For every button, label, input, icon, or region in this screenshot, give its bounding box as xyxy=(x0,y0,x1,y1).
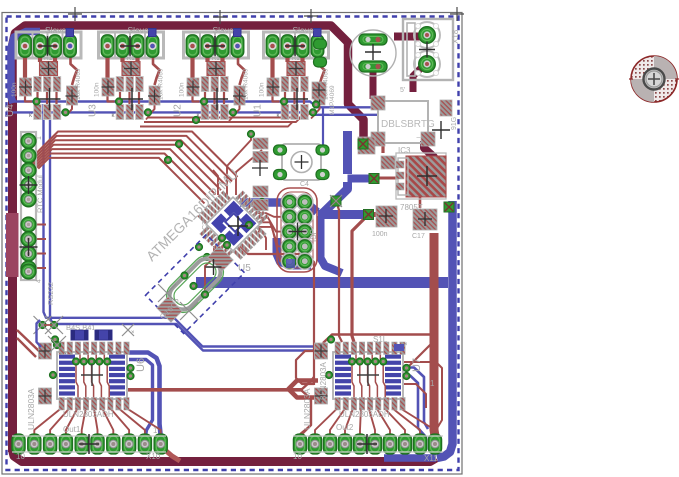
via U1 a xyxy=(281,98,288,105)
wire red X11 pad1 link xyxy=(300,425,311,434)
diode M8 B41 b xyxy=(95,330,112,340)
svg-text:U6: U6 xyxy=(135,358,147,372)
wire red pad stubs U2 xyxy=(190,52,194,79)
IC U4 smd xyxy=(66,29,74,37)
svg-text:X18: X18 xyxy=(451,29,460,44)
resistor R1 U3 xyxy=(122,62,140,76)
svg-text:10: 10 xyxy=(16,452,25,461)
connector U2 terminal block xyxy=(184,32,249,58)
big cross U1 xyxy=(286,88,308,110)
svg-text:B4S B41: B4S B41 xyxy=(66,323,96,332)
via U1 b xyxy=(310,109,317,116)
IC3 regulator tab xyxy=(396,153,446,199)
connector U1 terminal block xyxy=(264,32,329,58)
wire GND blue big horizontal xyxy=(196,277,448,288)
svg-text:RS232: RS232 xyxy=(46,282,55,305)
wire red fan U7 to X11 xyxy=(315,409,337,437)
resistor group mid d xyxy=(253,200,268,211)
IC U7 pins top xyxy=(335,342,340,355)
cross RTC a xyxy=(20,176,38,194)
IC U7 internal traces xyxy=(352,364,354,398)
svg-text:Out1: Out1 xyxy=(63,425,81,434)
svg-text:100n: 100n xyxy=(372,231,388,238)
svg-text:U2: U2 xyxy=(173,104,184,117)
capacitor 100n U4 xyxy=(20,78,32,96)
vias U5 inner xyxy=(246,222,253,229)
wire red U5 bottom to crystal xyxy=(205,246,214,291)
big cross U2 xyxy=(206,88,228,110)
svg-text:×: × xyxy=(131,330,135,336)
resistor group mid a xyxy=(253,138,268,149)
board outline frame xyxy=(2,13,462,475)
svg-text:10k R4069: 10k R4069 xyxy=(75,68,82,100)
via square d xyxy=(364,210,374,220)
resistor R1 U4 xyxy=(40,62,58,76)
via U5 area d xyxy=(248,131,255,138)
pad mid hatched a xyxy=(358,137,375,154)
resistor array U1 row2 xyxy=(281,105,289,120)
svg-text:5': 5' xyxy=(400,87,405,94)
svg-text:DBLSBRTG: DBLSBRTG xyxy=(381,119,435,130)
header SV1 pads xyxy=(282,194,298,210)
IC U7 copper bars left xyxy=(335,355,351,359)
pads BAS vias xyxy=(39,322,46,329)
pads U1 xyxy=(266,35,279,57)
connector X11 silk xyxy=(293,436,443,452)
svg-text:U4: U4 xyxy=(5,104,16,117)
connector X11 cross xyxy=(357,434,377,454)
svg-text:Out2: Out2 xyxy=(336,423,354,432)
capacitor C15 cross xyxy=(365,44,381,60)
IC U7 body xyxy=(333,352,403,399)
capacitor U6 left bottom xyxy=(39,388,52,404)
big cross U3 xyxy=(121,88,143,110)
switch S1 body xyxy=(282,144,321,180)
IC U6 pins top xyxy=(59,342,64,355)
wire red long horizontal U6-U7 xyxy=(128,388,303,392)
IC U6 pins bottom xyxy=(59,398,64,411)
crystal Q1 vias xyxy=(181,272,188,279)
wire blue bottom edge xyxy=(384,454,436,462)
capacitor 100n U2 xyxy=(187,78,199,96)
svg-text:ULN2803A: ULN2803A xyxy=(26,388,36,430)
wire blue drop to U6 xyxy=(37,320,42,347)
svg-text:U7: U7 xyxy=(411,358,423,372)
svg-text:8LN2803A: 8LN2803A xyxy=(319,362,328,400)
cross U5 xyxy=(228,216,248,236)
capacitor U7 left top xyxy=(315,343,328,359)
connector X10 pads xyxy=(12,434,25,454)
wire red mid vertical x349 xyxy=(352,215,368,342)
resistor array U1 row1 xyxy=(281,77,289,92)
wire red U7 ring xyxy=(289,381,319,398)
wire red power vertical right xyxy=(434,233,435,436)
wire red via2 hooks xyxy=(146,115,150,120)
capacitor 100n U3 xyxy=(102,78,114,96)
svg-text:100n: 100n xyxy=(179,82,186,97)
IC U7 via row xyxy=(349,358,356,365)
vias U6 sides xyxy=(52,336,59,343)
wire red via link xyxy=(44,324,52,326)
capacitor U6 left top xyxy=(39,343,52,359)
IC U5 ATMEGA body (rotated 45) xyxy=(206,197,260,251)
svg-text:ISP: ISP xyxy=(309,229,318,242)
wire red U6 corner to GND xyxy=(158,444,180,461)
IC3 cross xyxy=(417,166,437,186)
wire red band to U7 horizontal xyxy=(323,335,430,344)
wire red X18 pin2 down xyxy=(413,66,423,92)
svg-text:Slave: Slave xyxy=(128,25,150,35)
wire +V blue top-left corner xyxy=(11,32,40,104)
IC U6 internal traces xyxy=(76,364,78,398)
connector U3 terminal block xyxy=(99,32,164,58)
wire +5V blue diagonal to ISP xyxy=(321,182,348,215)
capacitor C16 xyxy=(376,206,397,227)
wire blue ISP right vertical xyxy=(321,216,343,273)
connector X11 pads xyxy=(293,434,306,454)
rectifier DBLC outline xyxy=(378,101,428,143)
rectifier DBLC pads xyxy=(371,96,385,110)
wire GND ring top (thick dark red) xyxy=(13,26,364,142)
diode M8 B41 a xyxy=(71,330,88,340)
crystal Q1 body xyxy=(153,242,238,327)
wire red fan U6 to X10 xyxy=(34,408,61,437)
wire red cap to DBLC xyxy=(370,71,377,99)
svg-text:91G: 91G xyxy=(451,117,458,130)
wire red IC3 to C17 xyxy=(419,196,422,208)
capacitor C15 pads xyxy=(359,34,387,45)
pad mid hatched b xyxy=(381,156,395,169)
resistor R1 U1 xyxy=(287,62,305,76)
origin cross top b xyxy=(213,10,227,24)
connector U4 terminal block xyxy=(16,32,81,58)
resistor array U4 row1 xyxy=(34,77,42,92)
svg-text:~: ~ xyxy=(381,105,386,114)
resistor group mid c xyxy=(253,186,268,197)
svg-text:M1P/4069: M1P/4069 xyxy=(329,85,336,115)
wire signal blue horizontal 2 (thin) xyxy=(12,112,377,114)
svg-text:1: 1 xyxy=(36,136,43,140)
board dimension border (dashed) xyxy=(7,17,459,471)
origin cross U3 xyxy=(120,36,140,56)
wire red U7 top entries xyxy=(296,351,316,384)
svg-text:X11: X11 xyxy=(424,454,438,463)
svg-text:4: 4 xyxy=(36,279,43,283)
wire blue right edge vertical xyxy=(437,201,453,458)
wire blue RTC vertical b xyxy=(50,114,316,351)
via square b xyxy=(369,174,379,184)
svg-text:100n: 100n xyxy=(259,82,266,97)
via U2 b xyxy=(230,109,237,116)
header SV1 blue pin1 mark xyxy=(286,259,295,268)
wire GND ring left (thick dark red) xyxy=(8,96,17,452)
svg-text:10k R4069: 10k R4069 xyxy=(158,68,165,100)
via U3 b xyxy=(145,109,152,116)
wire +5V blue mid vertical xyxy=(343,131,352,174)
IC U5 pins (rotated comb) xyxy=(190,181,276,267)
wire red pad stubs U1 xyxy=(270,52,274,79)
diode pads pair top xyxy=(314,39,327,49)
pads U4 xyxy=(19,35,32,57)
resistor U4 right xyxy=(67,86,78,105)
svg-text:10k R4069: 10k R4069 xyxy=(243,68,250,100)
wire red pad stubs U3 xyxy=(105,52,109,79)
svg-text:ULN2803ADH: ULN2803ADH xyxy=(339,410,390,419)
IC U6 body xyxy=(57,352,127,399)
pads RTC upper xyxy=(21,134,36,149)
wire +5V blue horizontal ISP top xyxy=(318,210,367,219)
resistor U1 right xyxy=(314,86,325,105)
IC3 pins xyxy=(396,161,404,168)
svg-text:RTC Modul: RTC Modul xyxy=(36,175,45,213)
via U5 area a xyxy=(193,117,200,124)
header SV1 outline red xyxy=(277,188,317,272)
origin cross U2 xyxy=(205,36,225,56)
xmark U6 top right xyxy=(122,324,134,336)
IC U7 cross xyxy=(357,364,379,386)
wire blue U6 wrap inner xyxy=(129,360,153,437)
resistor U2 right xyxy=(234,86,245,105)
wire red mid vertical x339 xyxy=(337,204,342,342)
wire red second-level horizontals xyxy=(148,113,310,118)
via U4 a xyxy=(33,98,40,105)
wire bus RTC to U5 (red bundle) xyxy=(28,132,238,178)
svg-text:U1: U1 xyxy=(253,104,264,117)
svg-text:Slave: Slave xyxy=(213,25,235,35)
wire blue RTC vertical a xyxy=(44,104,317,347)
svg-text:1: 1 xyxy=(430,379,435,388)
resistor right of group4 xyxy=(312,82,326,99)
wire red via to C16 xyxy=(370,212,388,217)
svg-text:Slave: Slave xyxy=(45,25,67,35)
pad RTC last xyxy=(21,264,36,279)
svg-text:U3: U3 xyxy=(88,104,99,117)
via square c xyxy=(331,196,341,206)
origin cross top d xyxy=(450,7,464,21)
wire blue stub to switch xyxy=(322,107,324,146)
connector X18 outline xyxy=(403,19,453,80)
rectifier DBLC cross xyxy=(432,121,450,139)
via U2 a xyxy=(201,98,208,105)
via U5 area b xyxy=(176,141,183,148)
wire red 7805 out xyxy=(376,177,398,180)
svg-text:ULN2803A: ULN2803A xyxy=(302,388,312,430)
IC U2 smd xyxy=(234,29,242,37)
origin cross U4 xyxy=(38,36,58,56)
via square a xyxy=(358,139,368,149)
crystal Q1 xmarks xyxy=(158,284,176,302)
svg-text:100n: 100n xyxy=(94,82,101,97)
wire +5V blue stub to via xyxy=(348,175,373,183)
wire GND ring bottom (thick dark red) xyxy=(13,450,437,462)
wire red DBLC to IC3 xyxy=(424,141,434,162)
resistor array U3 row1 xyxy=(116,77,124,92)
pads U3 xyxy=(101,35,114,57)
switch S1 pads xyxy=(274,145,287,155)
pads U2 xyxy=(186,35,199,57)
resistor array U2 row2 xyxy=(201,105,209,120)
connector X10 cross xyxy=(79,434,99,454)
IC U7 copper bars right xyxy=(385,355,401,359)
capacitor 100n U1 xyxy=(267,78,279,96)
wire red fork up xyxy=(301,377,314,390)
connector X18 pad2 xyxy=(414,51,440,77)
header SV1 cross xyxy=(289,223,307,241)
wire red U6 left diagonals xyxy=(17,330,40,352)
svg-text:C4: C4 xyxy=(300,181,309,188)
IC U3 smd xyxy=(149,29,157,37)
wire blue U5 to header xyxy=(240,203,317,213)
wire blue U6 wrap outer xyxy=(129,353,161,435)
connector X18 pad1 xyxy=(414,22,440,48)
via square e xyxy=(444,202,454,212)
mounting hole pad xyxy=(629,56,679,102)
connector RTC module silk xyxy=(21,132,36,280)
big cross U4 xyxy=(39,88,61,110)
wire blue ISP left vertical xyxy=(277,238,312,266)
origin cross top c xyxy=(304,9,318,23)
svg-text:C17: C17 xyxy=(412,233,425,240)
svg-text:1: 1 xyxy=(153,426,158,435)
wire red fork down xyxy=(301,390,311,438)
svg-text:10: 10 xyxy=(293,452,302,461)
pads RTC lower xyxy=(21,217,36,232)
wire blue U7 right b xyxy=(404,376,426,451)
cross RTC b xyxy=(20,238,38,256)
IC U6 copper bars right xyxy=(109,355,125,359)
capacitor U7 left bottom xyxy=(315,388,328,404)
svg-text:ULN2803ADH: ULN2803ADH xyxy=(63,410,114,419)
crystal Q1 cross xyxy=(206,259,222,275)
origin cross top a xyxy=(68,7,82,21)
connector X10 silk xyxy=(12,436,166,452)
resistor array U4 row2 xyxy=(34,105,42,120)
capacitor C17 xyxy=(413,209,437,230)
vias U7 sides xyxy=(328,336,335,343)
wire red U7 right hookups xyxy=(406,344,431,368)
switch S1 cross xyxy=(295,155,309,169)
connector X18 cross xyxy=(419,42,435,58)
wire bus U5 to ISP header (red) xyxy=(258,202,283,209)
svg-text:S1L: S1L xyxy=(373,335,388,344)
wire red U5 bottom across xyxy=(240,246,314,385)
svg-text:X10: X10 xyxy=(146,452,161,461)
wire red DBLC bottom left xyxy=(381,140,384,153)
origin cross U1 xyxy=(285,36,305,56)
svg-text:Slave: Slave xyxy=(293,25,315,35)
via U3 a xyxy=(116,98,123,105)
IC U6 copper bars left xyxy=(59,355,75,359)
resistor array U3 row2 xyxy=(116,105,124,120)
IC U1 smd xyxy=(314,29,322,37)
capacitor C15 outline xyxy=(350,30,396,76)
wire blue U7 right a xyxy=(404,368,428,430)
svg-text:×: × xyxy=(404,342,408,348)
red plane patch left edge xyxy=(6,213,19,277)
cross mid resistors xyxy=(252,160,268,176)
via U5 area c xyxy=(165,157,172,164)
wire signal blue horizontal 1 (thin) xyxy=(12,102,377,108)
svg-text:−: − xyxy=(416,133,421,142)
wire red X18 to cap xyxy=(394,33,420,41)
resistor group mid b xyxy=(253,152,268,163)
svg-text:C3: C3 xyxy=(202,221,209,230)
IC U6 cross xyxy=(81,364,103,386)
svg-text:100n: 100n xyxy=(11,82,18,97)
resistor R1 U2 xyxy=(207,62,225,76)
resistor U3 right xyxy=(149,86,160,105)
resistor array U2 row1 xyxy=(201,77,209,92)
U7 pin1 blue marker xyxy=(394,344,404,351)
IC U6 via row xyxy=(73,358,80,365)
wire red RTC stubs xyxy=(34,224,46,226)
red plane patch left lower xyxy=(8,277,17,387)
wire red U5 top stubs xyxy=(213,170,218,195)
IC U7 pins bottom xyxy=(335,398,340,411)
via jog a xyxy=(313,101,320,108)
wire red pad stubs U4 xyxy=(23,52,27,79)
via U4 b xyxy=(62,109,69,116)
crystal Q1 selection box xyxy=(146,235,245,334)
